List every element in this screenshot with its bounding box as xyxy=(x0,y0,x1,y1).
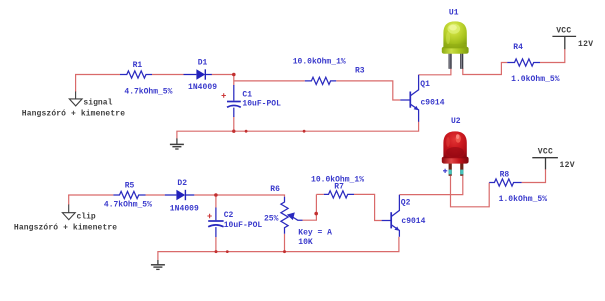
node rail2 dot 1 xyxy=(215,250,218,253)
svg-text:1N4009: 1N4009 xyxy=(170,205,199,214)
resistor R7 xyxy=(324,191,354,198)
svg-text:Hangszóró + kimenetre: Hangszóró + kimenetre xyxy=(14,223,117,232)
wire wiper to R7 xyxy=(303,194,317,220)
wire R5 to D2 xyxy=(146,194,165,196)
svg-text:D2: D2 xyxy=(177,179,187,188)
diode D2 xyxy=(165,190,195,200)
wire node B to pot xyxy=(216,195,285,197)
wire R8 to VCC2 xyxy=(522,169,546,183)
svg-text:clip: clip xyxy=(77,213,96,222)
wire clip to R5 xyxy=(68,194,113,196)
ground signal xyxy=(69,92,82,106)
wire top ground rail xyxy=(177,122,419,139)
svg-text:c9014: c9014 xyxy=(421,99,445,108)
wire R1 to D1 xyxy=(152,74,184,76)
svg-text:R4: R4 xyxy=(513,43,523,52)
wire signal to R1 xyxy=(75,74,120,76)
svg-text:12V: 12V xyxy=(578,40,593,49)
svg-text:c9014: c9014 xyxy=(401,217,425,226)
wire bottom ground rail xyxy=(158,237,399,260)
node rail2 dot 2 xyxy=(226,250,229,253)
svg-text:R8: R8 xyxy=(500,170,510,179)
svg-text:U2: U2 xyxy=(451,117,461,126)
wire D2 to node B xyxy=(194,194,216,196)
svg-text:R1: R1 xyxy=(133,61,143,70)
node A junction dot xyxy=(232,73,236,77)
node wiper junction dot xyxy=(314,212,318,216)
resistor R3 xyxy=(305,77,336,84)
transistor Q1 xyxy=(400,75,418,122)
capacitor C1 xyxy=(227,85,241,117)
svg-text:1.0kOhm_5%: 1.0kOhm_5% xyxy=(499,195,548,204)
wire pot bottom xyxy=(284,234,286,252)
svg-text:Q1: Q1 xyxy=(420,80,430,89)
wire R7 to Q2 base xyxy=(354,194,382,220)
svg-text:R5: R5 xyxy=(125,181,135,190)
svg-text:Q2: Q2 xyxy=(401,198,411,207)
svg-text:C1: C1 xyxy=(242,91,252,100)
resistor R4 xyxy=(507,59,540,66)
ground top rail xyxy=(170,138,184,149)
svg-text:VCC: VCC xyxy=(538,148,553,157)
resistor R5 xyxy=(113,191,145,198)
capacitor C2 xyxy=(208,208,223,238)
node rail2 dot 3 xyxy=(283,250,286,253)
svg-text:1.0kOhm_5%: 1.0kOhm_5% xyxy=(511,75,560,84)
wire Q1 collector to U1 anode xyxy=(419,68,451,75)
svg-text:12V: 12V xyxy=(560,161,575,170)
wire R4 to VCC1 xyxy=(540,49,565,63)
wire D1 to node xyxy=(212,75,235,86)
wire signal stem xyxy=(75,75,77,93)
svg-text:10K: 10K xyxy=(298,238,313,247)
node rail dot 3 xyxy=(303,130,306,133)
svg-text:VCC: VCC xyxy=(556,26,571,35)
transistor Q2 xyxy=(382,195,400,237)
svg-text:1N4009: 1N4009 xyxy=(188,83,217,92)
wire C1 bottom xyxy=(233,117,235,132)
LED U2 red xyxy=(442,131,469,175)
svg-text:signal: signal xyxy=(83,99,112,108)
wire C2 bottom xyxy=(215,237,217,252)
svg-text:Hangszóró + kimenetre: Hangszóró + kimenetre xyxy=(22,109,125,118)
svg-text:10.0kOhm_1%: 10.0kOhm_1% xyxy=(293,58,346,67)
svg-text:U1: U1 xyxy=(449,8,459,17)
wire Q2 collector to U2 cathode xyxy=(400,176,463,195)
wire R3 to Q1 base xyxy=(336,81,400,100)
power VCC1 xyxy=(552,36,576,49)
wire C2 top xyxy=(215,195,217,208)
resistor R8 xyxy=(489,179,521,186)
potentiometer R6 xyxy=(281,197,303,234)
wire clip stem xyxy=(68,195,70,205)
power VCC2 xyxy=(532,158,558,170)
node rail dot 2 xyxy=(245,130,248,133)
node rail dot 1 xyxy=(232,130,235,133)
svg-text:C2: C2 xyxy=(224,211,234,220)
resistor R1 xyxy=(120,71,152,78)
svg-text:25%: 25% xyxy=(264,214,279,223)
svg-text:4.7kOhm_5%: 4.7kOhm_5% xyxy=(124,88,172,97)
node B junction dot xyxy=(214,193,218,197)
wire U1 cathode to R4 xyxy=(463,63,507,75)
wire R7 left stub joint xyxy=(316,193,323,195)
svg-text:10uF-POL: 10uF-POL xyxy=(242,100,281,109)
LED U1 green xyxy=(442,21,469,68)
polarity plus C1 xyxy=(222,93,226,97)
ground bottom rail xyxy=(151,260,165,270)
polarity plus U2 xyxy=(443,169,447,173)
svg-text:Key = A: Key = A xyxy=(298,229,332,238)
ground clip xyxy=(62,205,75,220)
wire U2 anode to R8 xyxy=(451,176,490,207)
svg-text:D1: D1 xyxy=(198,59,208,68)
diode D1 xyxy=(184,69,212,79)
svg-text:10uF-POL: 10uF-POL xyxy=(224,221,263,230)
polarity plus C2 xyxy=(207,214,211,218)
svg-text:R3: R3 xyxy=(355,66,365,75)
wire node to R3 xyxy=(234,80,305,82)
svg-text:R6: R6 xyxy=(270,185,280,194)
svg-text:4.7kOhm_5%: 4.7kOhm_5% xyxy=(104,200,152,209)
